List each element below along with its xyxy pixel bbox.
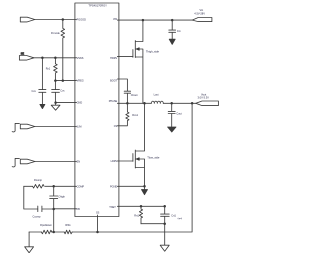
pulse symbol for J3 <box>12 123 19 132</box>
node VIN/CIN junction <box>171 19 174 22</box>
svg-text:LDRV: LDRV <box>111 160 118 163</box>
ground (analog) for COUT <box>168 127 176 132</box>
capacitor CIN <box>169 20 176 39</box>
svg-text:Rcs1: Rcs1 <box>132 114 138 117</box>
node PHASE/CBOOT junction <box>126 102 128 105</box>
svg-text:Thigh_side: Thigh_side <box>146 50 160 54</box>
wire output <box>163 102 196 104</box>
wire RT bottom tie <box>141 224 165 245</box>
svg-text:TPS40170RGY: TPS40170RGY <box>88 4 107 8</box>
svg-text:VIN: VIN <box>113 18 117 21</box>
connector J4 EN flag <box>20 159 35 164</box>
wire PHASE <box>117 102 151 104</box>
node FB junction <box>52 208 55 211</box>
wire GND stub <box>55 103 57 105</box>
transistor Q2 body arrow <box>136 158 139 160</box>
svg-text:HDRV: HDRV <box>110 57 117 60</box>
svg-text:R:mode: R:mode <box>51 32 60 35</box>
node GND/C2 junction <box>54 101 57 104</box>
node VIN/Q1 drain junction <box>142 19 145 22</box>
svg-text:(opt): (opt) <box>178 217 183 220</box>
wire FB node down <box>53 209 55 232</box>
transistor Q1 body arrow <box>136 48 139 50</box>
pulse symbol for J4 <box>12 158 19 167</box>
svg-text:PHASE: PHASE <box>109 100 118 103</box>
node VSNS/C1 junction <box>41 57 44 60</box>
svg-text:VSNS: VSNS <box>77 57 84 60</box>
node PHASE/Q1-Q2 junction <box>143 102 146 105</box>
ground (power) for CIN <box>169 39 175 44</box>
IC U1 controller body <box>75 3 119 217</box>
svg-text:Rcomp: Rcomp <box>34 179 43 182</box>
ground (analog) for RT <box>160 245 169 251</box>
capacitor CRT <box>161 206 170 223</box>
svg-text:Tlow_side: Tlow_side <box>147 156 160 160</box>
wire ground stub bottom-left <box>28 232 30 247</box>
node dots <box>41 18 193 233</box>
ground (analog) for GND pin <box>51 105 60 110</box>
svg-text:GND: GND <box>77 102 83 105</box>
svg-text:Rfb1: Rfb1 <box>65 224 71 227</box>
wire EN left <box>35 161 76 163</box>
capacitor COUT <box>168 103 175 127</box>
svg-text:ILIM: ILIM <box>77 126 82 129</box>
connector J1 PGOOD flag <box>20 17 35 22</box>
svg-text:SS: SS <box>96 212 100 215</box>
connector J3 ILIM flag <box>20 124 35 129</box>
ground (analog) bottom-left <box>25 247 34 253</box>
svg-text:4.5V-28V: 4.5V-28V <box>194 11 205 15</box>
svg-text:FB: FB <box>77 208 81 211</box>
wire VREG left <box>55 80 76 82</box>
svg-text:CS: CS <box>114 125 118 128</box>
svg-text:SE: SE <box>21 53 25 56</box>
svg-text:Cout: Cout <box>176 113 182 116</box>
svg-text:Chigh: Chigh <box>58 196 65 199</box>
svg-text:Rx1: Rx1 <box>46 67 51 70</box>
wire PGND <box>117 186 144 189</box>
wire bottom feedback rail <box>29 103 192 232</box>
node VREG/RMODE junction <box>62 79 65 82</box>
wire VIN right <box>117 19 192 21</box>
node VREG/RX1 junction <box>54 79 57 82</box>
ground (power) for PGND <box>142 190 148 195</box>
svg-text:BOOT: BOOT <box>110 80 118 83</box>
connector J2 VSNS flag <box>19 56 34 61</box>
resistor RFB low <box>41 230 52 234</box>
wire HDRV gate <box>117 56 132 58</box>
wire comp left vertical <box>24 186 38 209</box>
transistor Q1 high-side FET <box>133 20 143 103</box>
wire GND left <box>56 102 77 104</box>
wire FB left <box>54 208 77 210</box>
wire LDRV gate <box>117 160 132 162</box>
svg-text:PGND: PGND <box>110 185 117 188</box>
resistor RCOMP <box>33 185 45 189</box>
svg-text:COMP: COMP <box>77 185 85 188</box>
wire ILIM left <box>34 126 77 128</box>
svg-text:3.0V-3.3V: 3.0V-3.3V <box>198 96 210 100</box>
node VSNS/RX1 junction <box>54 57 57 60</box>
connector VIN flag <box>192 18 212 22</box>
wire RT <box>117 205 164 207</box>
node VOUT/sense junction <box>191 102 194 105</box>
resistor RX1 <box>54 58 58 81</box>
svg-text:Cvs: Cvs <box>31 90 36 93</box>
resistor RMODE <box>61 20 65 81</box>
capacitor C2 <box>52 81 60 103</box>
node SS/rail junction <box>96 231 99 234</box>
resistor RFB high <box>64 230 72 234</box>
node PGOOD/RMODE junction <box>62 18 65 21</box>
svg-text:Lout: Lout <box>154 94 159 97</box>
wire BOOT <box>117 79 127 91</box>
resistor RILIM <box>117 103 129 126</box>
node RT/CRT junction <box>163 205 166 208</box>
svg-text:Rrt1: Rrt1 <box>134 215 139 218</box>
node RT/RRT junction <box>140 205 143 208</box>
ground (power) for C1 <box>40 104 45 108</box>
svg-text:TNET: TNET <box>109 206 116 209</box>
node COMP junction <box>52 185 55 188</box>
capacitor CCOMP <box>38 206 54 212</box>
svg-text:Cvc: Cvc <box>60 90 65 93</box>
capacitor CHF <box>50 186 58 209</box>
svg-text:PGOOD: PGOOD <box>77 19 87 22</box>
capacitor C1 <box>39 58 46 105</box>
svg-text:Rpulldown: Rpulldown <box>40 224 52 227</box>
transistor Q2 low-side FET <box>133 103 145 186</box>
svg-text:EN: EN <box>77 161 81 164</box>
svg-text:Cboot: Cboot <box>131 94 138 97</box>
node divider mid junction <box>52 231 55 234</box>
svg-text:Crt1: Crt1 <box>171 215 176 218</box>
connector VOUT flag <box>196 101 219 106</box>
svg-text:VREG: VREG <box>77 80 84 83</box>
node PGND/Q2 source junction <box>143 185 146 188</box>
svg-text:Ccomp: Ccomp <box>33 215 42 218</box>
node RRT-CRT tie junction <box>163 222 166 225</box>
wire VSNS left <box>32 57 76 59</box>
svg-text:Cin: Cin <box>177 30 181 33</box>
inductor LOUT <box>151 101 163 103</box>
wire SS stub <box>97 215 99 232</box>
wire PGOOD left <box>35 19 77 21</box>
resistor RRT <box>139 206 142 223</box>
capacitor CBOOT <box>124 91 130 103</box>
wire COMP left <box>24 185 77 187</box>
node VOUT/COUT junction <box>170 102 173 105</box>
